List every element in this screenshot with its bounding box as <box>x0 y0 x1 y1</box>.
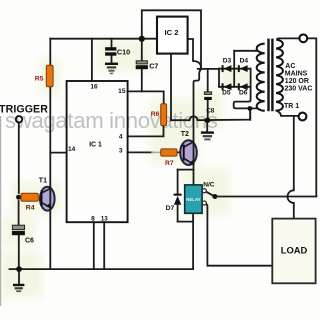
svg-text:C6: C6 <box>25 237 34 244</box>
IC 1 box U1 <box>67 81 128 222</box>
wire R7 lead light <box>152 151 161 153</box>
diode D3 <box>222 65 232 72</box>
wire relay bottom to rail <box>192 222 194 270</box>
wire D7 top connect <box>178 169 194 171</box>
svg-text:MAINS: MAINS <box>285 70 308 77</box>
ground bottom left <box>13 284 24 292</box>
resistor R5 <box>46 65 53 86</box>
capacitor C8 <box>204 92 212 100</box>
wire IC1 pin13 down <box>103 222 105 269</box>
svg-text:8: 8 <box>91 215 95 222</box>
node junction dot R4 trigger line <box>16 195 21 200</box>
tint patches (scan discoloration) <box>0 40 251 298</box>
wire ground horizontal with hop over T2 line <box>171 109 250 121</box>
wire top rail Vdd <box>50 38 157 40</box>
transistor T1 <box>40 187 55 211</box>
svg-text:D5: D5 <box>222 90 231 97</box>
wire trigger down <box>18 123 20 193</box>
svg-text:D3: D3 <box>223 58 232 65</box>
mains terminal top <box>299 34 307 42</box>
node junction dot ground C8 <box>205 118 211 124</box>
wire C8 ground stem <box>206 120 208 131</box>
wire D7 branch upper <box>177 170 179 194</box>
transistor T2 <box>180 140 197 165</box>
wire trigger to C6 <box>18 201 20 225</box>
svg-text:C7: C7 <box>149 61 158 70</box>
svg-text:15: 15 <box>118 88 126 95</box>
relay switch arm <box>206 192 215 197</box>
resistor R6 <box>161 104 167 126</box>
wire load top with hop <box>288 116 294 219</box>
transformer core bars <box>267 39 269 112</box>
wire bottom rail <box>10 268 194 270</box>
wire pin14 to R5 line <box>50 152 66 154</box>
wire R5 to T1 to bottom rail <box>49 87 51 269</box>
node junction dot AC2 <box>248 106 253 111</box>
IC 2 box U2 <box>157 17 188 54</box>
wire bridge mid rail AC1 <box>233 51 235 87</box>
svg-text:T2: T2 <box>181 131 189 138</box>
relay N/C contact <box>202 189 206 193</box>
resistor R7 <box>161 149 177 156</box>
svg-text:R7: R7 <box>165 160 174 167</box>
diode D6 <box>238 83 248 90</box>
svg-text:T1: T1 <box>39 177 47 184</box>
wire C7 to pin15 rail <box>141 69 143 91</box>
wire bridge left rail <box>218 69 220 87</box>
wire outer loop to IC2 <box>142 10 201 69</box>
wire C7 from junction <box>141 39 143 61</box>
left image edge line <box>0 116 1 306</box>
wire relay bottom <box>192 213 194 221</box>
svg-text:R5: R5 <box>35 76 44 83</box>
wire bridge right rail <box>234 69 257 109</box>
svg-text:C10: C10 <box>117 48 130 57</box>
svg-text:4: 4 <box>119 133 123 140</box>
relay pole dot <box>212 194 217 199</box>
wire T2 emitter to relay <box>193 164 195 185</box>
node junction dot trigger bottom rail <box>16 266 22 272</box>
wire bridge top row <box>219 68 251 70</box>
svg-text:R6: R6 <box>151 111 160 118</box>
capacitor C10 <box>105 47 116 56</box>
ground below C8 <box>201 131 214 140</box>
svg-text:TR 1: TR 1 <box>284 103 299 110</box>
wire secondary top lead <box>234 50 257 52</box>
wire pin3 to R7 <box>128 151 153 153</box>
svg-text:RELAY: RELAY <box>186 197 201 202</box>
wire C8 to ground junction <box>207 100 209 120</box>
wire C8 tap from +V <box>207 69 209 92</box>
wire pin15 to R6 <box>128 91 164 104</box>
wire primary bottom lead <box>276 111 298 116</box>
diode D4 <box>238 65 248 72</box>
wire R7 to T2 base <box>177 151 183 153</box>
label AC MAINS block <box>284 63 312 110</box>
wire mains terminal top to right edge <box>307 38 316 196</box>
capacitor C7 <box>136 61 148 69</box>
svg-text:D6: D6 <box>239 90 248 97</box>
diode D5 <box>222 83 232 90</box>
svg-text:IC 2: IC 2 <box>165 28 179 37</box>
wire IC2 ground pin down <box>170 54 172 121</box>
wire IC1 pin8 down <box>93 222 95 269</box>
svg-text:16: 16 <box>90 84 98 91</box>
svg-text:120 OR: 120 OR <box>285 78 309 85</box>
node junction dot rail-IC2 <box>139 36 145 42</box>
wire C10 to ground <box>111 56 113 63</box>
svg-text:IC 1: IC 1 <box>89 142 102 149</box>
resistor R4 <box>21 193 38 201</box>
wire D7 relay bottom join <box>178 221 194 223</box>
wire C6 to bottom rail <box>18 235 20 269</box>
svg-text:D4: D4 <box>240 58 249 65</box>
transformer TR1 secondary coil <box>257 44 265 111</box>
svg-text:14: 14 <box>68 146 76 153</box>
wire AC2 junction down to ground wire <box>249 109 251 120</box>
svg-text:13: 13 <box>101 215 108 222</box>
wire bottom ground stem <box>18 269 20 284</box>
wire primary top lead to mains terminal <box>277 38 299 39</box>
svg-text:230 VAC: 230 VAC <box>285 85 313 92</box>
wire R5 branch vertical <box>49 39 51 66</box>
svg-text:TRIGGER: TRIGGER <box>0 104 48 116</box>
mains terminal bottom <box>299 113 307 121</box>
transformer TR1 primary coil <box>276 40 283 111</box>
svg-text:C8: C8 <box>206 107 215 114</box>
ground below C10 <box>105 63 118 75</box>
LOAD box <box>272 219 315 284</box>
svg-text:N/C: N/C <box>203 181 215 188</box>
diode D7 <box>174 194 182 205</box>
svg-text:3: 3 <box>119 147 123 154</box>
svg-text:R4: R4 <box>26 204 35 211</box>
wire IC2 right pin down with hop <box>188 39 201 141</box>
svg-text:AC: AC <box>285 63 295 70</box>
wire N/O contact down to load <box>206 204 272 266</box>
wire R6 bottom to pin4 <box>128 126 164 137</box>
capacitor C6 <box>12 225 25 235</box>
svg-text:D7: D7 <box>166 205 175 212</box>
wire C10 tap <box>111 39 113 48</box>
wire relay pole to right edge <box>215 196 316 198</box>
wire bridge bottom row <box>219 86 251 88</box>
wire D7 branch lower <box>177 205 179 222</box>
trigger terminal <box>16 116 22 122</box>
relay coil box <box>185 185 202 213</box>
relay N/O contact <box>202 201 206 205</box>
wire IC1 pin16 up to rail <box>91 39 93 81</box>
wire +V bridge output horizontal <box>198 68 219 70</box>
svg-text:LOAD: LOAD <box>281 245 308 256</box>
